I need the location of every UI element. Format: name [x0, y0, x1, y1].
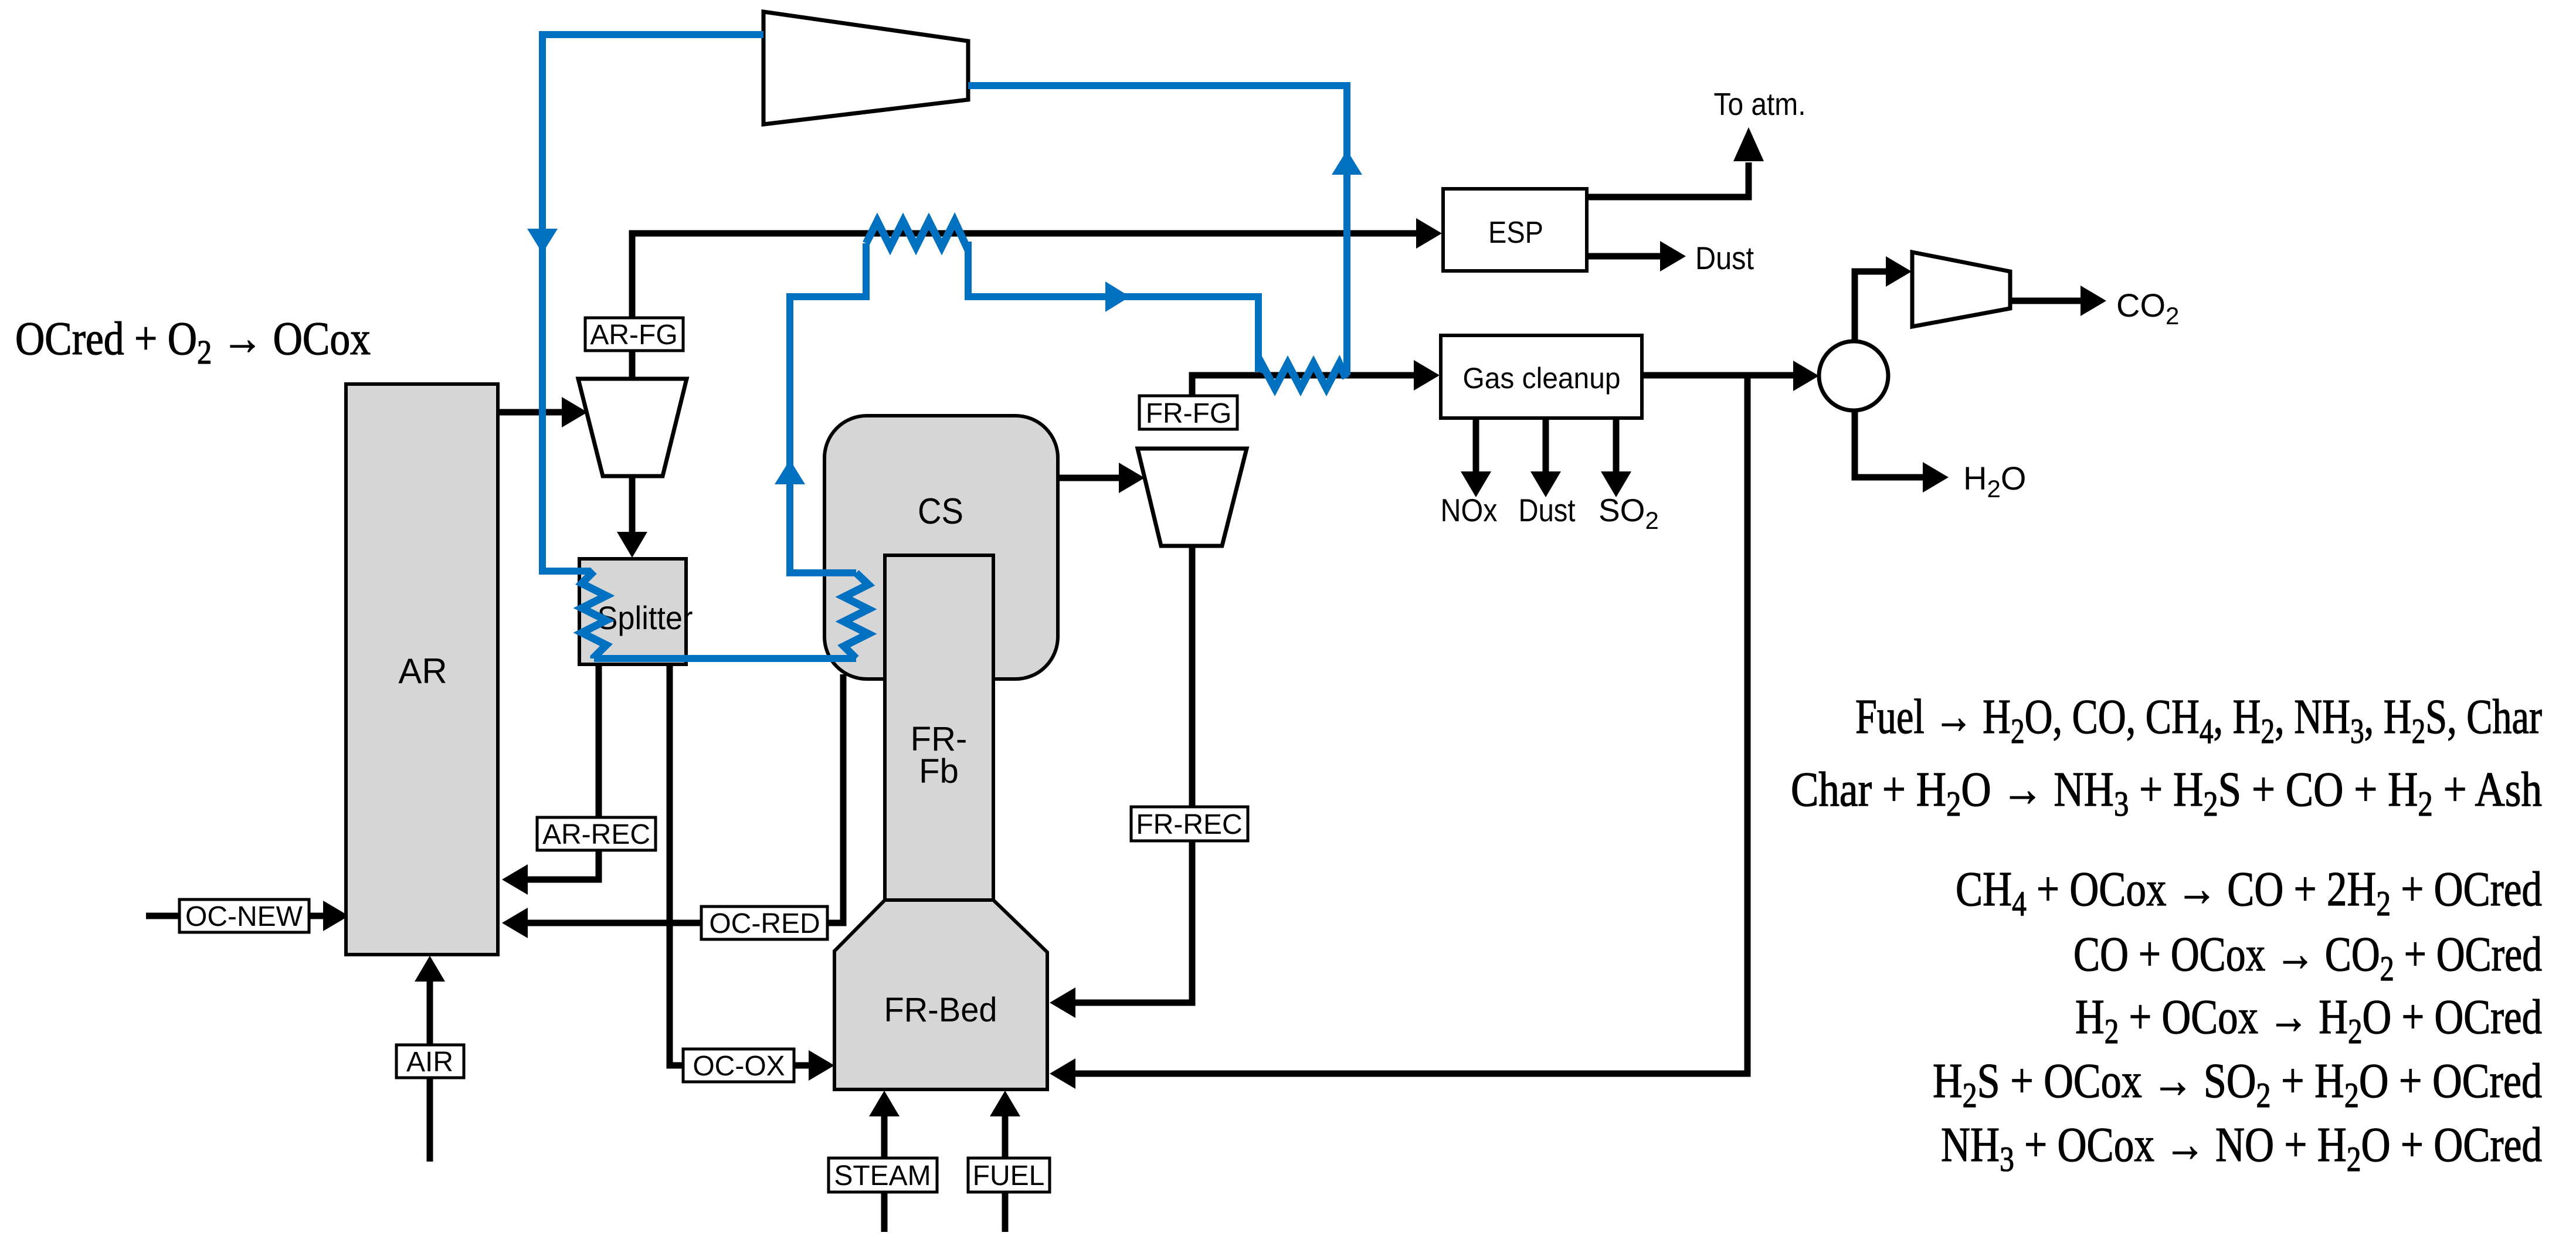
- wire AR-FG label to AR cyclone: [629, 349, 636, 381]
- wire FR-FG to Gas cleanup: [1192, 360, 1440, 398]
- arrow blue down: [527, 229, 558, 253]
- label AR-REC: [537, 817, 656, 850]
- heat exchanger FR-line coil: [1258, 364, 1346, 388]
- svg-text:Fb: Fb: [919, 752, 959, 790]
- wire blue turbine exhaust to splitter HX: [542, 35, 763, 571]
- label FR-REC: [1131, 807, 1248, 841]
- heat exchanger splitter coil: [582, 571, 606, 658]
- svg-text:FR-Bed: FR-Bed: [884, 991, 997, 1029]
- wire blue ESP-line HX to FR-line HX: [968, 242, 1258, 372]
- separator ESP: [1443, 189, 1587, 271]
- label FUEL: [968, 1158, 1050, 1192]
- svg-text:Gas cleanup: Gas cleanup: [1463, 362, 1621, 395]
- unit Gas cleanup: [1441, 335, 1642, 418]
- svg-text:NOx: NOx: [1441, 492, 1498, 528]
- svg-text:CO + OCox → CO2 + OCred: CO + OCox → CO2 + OCred: [2073, 927, 2542, 988]
- svg-text:Dust: Dust: [1695, 240, 1754, 276]
- svg-text:OC-OX: OC-OX: [693, 1051, 785, 1082]
- wire mixer to H2O: [1855, 409, 1949, 493]
- heat exchanger CS coil: [844, 573, 868, 658]
- wire AR to AR cyclone: [498, 397, 588, 427]
- svg-text:AR-FG: AR-FG: [590, 320, 677, 351]
- label OC-RED: [701, 907, 827, 939]
- wire Gas cleanup to Dust: [1530, 418, 1561, 497]
- svg-text:CS: CS: [918, 491, 963, 532]
- wire AR-REC Splitter to AR: [502, 663, 599, 895]
- wire AR cyclone to Splitter: [617, 474, 647, 558]
- wire ESP to Dust: [1587, 241, 1686, 271]
- reactor FR-Fb: [885, 555, 993, 900]
- svg-text:FR-FG: FR-FG: [1146, 398, 1232, 429]
- arrow blue up: [775, 460, 805, 484]
- separator CS: [824, 416, 1058, 679]
- wire FUEL to FR-Bed: [990, 1091, 1020, 1232]
- wire mixer to CO2 compressor: [1855, 256, 1912, 343]
- label OC-OX: [683, 1049, 794, 1082]
- svg-text:OC-RED: OC-RED: [709, 908, 820, 939]
- svg-text:FR-REC: FR-REC: [1136, 809, 1242, 840]
- svg-text:ESP: ESP: [1488, 216, 1543, 250]
- svg-text:Fuel → H2O, CO, CH4, H2, NH3,: Fuel → H2O, CO, CH4, H2, NH3, H2S, Char: [1855, 690, 2542, 751]
- wire blue CS to ESP-line HX: [790, 243, 866, 573]
- cyclone FR-FG: [1138, 449, 1247, 546]
- wire recycle to FR-Bed: [1050, 375, 1747, 1089]
- label FR-FG: [1139, 396, 1237, 429]
- svg-text:Dust: Dust: [1519, 492, 1576, 528]
- heat exchanger ESP-line coil: [866, 221, 968, 247]
- label AR-FG: [585, 318, 683, 351]
- svg-text:OC-NEW: OC-NEW: [185, 901, 303, 932]
- wire FR-FG cyclone down to FR-REC and FR-Bed: [1050, 544, 1192, 1018]
- compressor CO2: [1912, 252, 2010, 327]
- wire compressor to CO2: [2010, 286, 2106, 316]
- wire Gas cleanup to NOx: [1461, 418, 1491, 497]
- wire Gas cleanup to SO2: [1601, 418, 1631, 497]
- wire Gas cleanup to mixer: [1642, 361, 1819, 391]
- arrow blue right: [1105, 281, 1130, 312]
- svg-text:AR-REC: AR-REC: [542, 819, 650, 850]
- svg-text:FUEL: FUEL: [973, 1160, 1045, 1191]
- svg-text:Splitter: Splitter: [598, 599, 693, 636]
- label STEAM: [829, 1158, 937, 1192]
- svg-text:H2S + OCox → SO2 + H2O + OCred: H2S + OCox → SO2 + H2O + OCred: [1933, 1054, 2542, 1115]
- label AIR: [396, 1045, 464, 1078]
- wire ESP to atmosphere: [1587, 127, 1764, 197]
- reactor AR: [346, 384, 498, 955]
- wire AR-FG to ESP: [632, 218, 1442, 320]
- arrow blue up long: [1332, 150, 1362, 175]
- turbine T1: [763, 12, 968, 124]
- wire OC-OX Splitter to FR-Bed: [670, 663, 834, 1081]
- wire CS to FR-FG cyclone: [1058, 463, 1145, 493]
- wire OC-NEW to AR: [146, 901, 349, 931]
- svg-text:OCred + O2 → OCox: OCred + O2 → OCox: [15, 313, 371, 371]
- svg-text:CH4 + OCox → CO + 2H2 + OCred: CH4 + OCox → CO + 2H2 + OCred: [1956, 862, 2542, 923]
- svg-text:STEAM: STEAM: [834, 1160, 931, 1191]
- wire AIR to AR: [415, 956, 445, 1162]
- mixer M1: [1819, 341, 1888, 410]
- svg-text:AR: AR: [398, 651, 447, 691]
- wire OC-RED CS to AR: [502, 674, 843, 938]
- svg-text:NH3 + OCox → NO + H2O + OCred: NH3 + OCox → NO + H2O + OCred: [1941, 1118, 2542, 1179]
- label OC-NEW: [179, 899, 309, 932]
- reactor FR-Bed: [834, 900, 1047, 1089]
- wire blue splitter to CS: [594, 655, 856, 662]
- splitter box: [579, 559, 693, 664]
- wire STEAM to FR-Bed: [869, 1091, 900, 1232]
- svg-text:AIR: AIR: [406, 1047, 453, 1078]
- svg-text:H2 + OCox → H2O + OCred: H2 + OCox → H2O + OCred: [2075, 990, 2542, 1051]
- svg-text:To atm.: To atm.: [1714, 87, 1806, 122]
- cyclone AR: [578, 379, 687, 476]
- wire blue FR-line HX to turbine: [968, 86, 1347, 375]
- node NOx Dust SO2: [1441, 492, 1659, 534]
